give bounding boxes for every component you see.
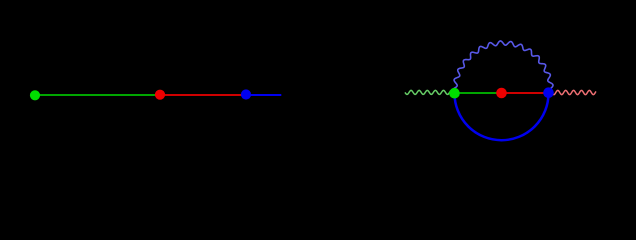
node: left red vertex (155, 90, 165, 100)
node: loop green vertex (449, 88, 460, 99)
node: loop red vertex (496, 88, 507, 99)
wire: left propagator green segment (35, 94, 160, 96)
wire: fermion loop arc bottom (blue semicircle) (455, 93, 549, 140)
wire: outgoing photon (salmon wavy) (549, 90, 597, 94)
wire: incoming photon (light green wavy) (405, 90, 455, 94)
node: left green vertex (30, 90, 40, 100)
node: loop blue vertex (543, 87, 554, 98)
wire: loop internal green segment (455, 92, 502, 94)
wire: loop internal red segment (502, 92, 549, 94)
node: left blue vertex (241, 89, 251, 99)
wire: left propagator blue segment (246, 94, 281, 96)
wire: photon loop arc top (periwinkle wavy) (452, 41, 553, 93)
wire: left propagator red segment (160, 94, 246, 96)
